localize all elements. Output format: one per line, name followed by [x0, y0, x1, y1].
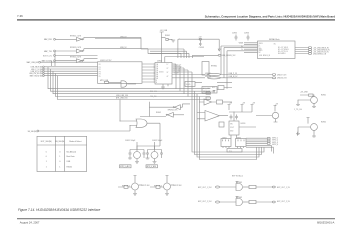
svg-text:B4 SHIELD: B4 SHIELD [278, 53, 287, 55]
svg-text:USB_M_5V: USB_M_5V [174, 67, 182, 69]
svg-text:+5V: +5V [199, 36, 203, 38]
svg-text:1_TO_OG: 1_TO_OG [294, 109, 303, 111]
svg-text:VBUS: VBUS [259, 43, 263, 45]
svg-text:B3 +5V_PLUS: B3 +5V_PLUS [278, 51, 288, 53]
svg-text:TXD_5V0: TXD_5V0 [150, 96, 157, 98]
svg-text:USB_5V: USB_5V [120, 47, 127, 49]
svg-text:3Y: 3Y [167, 72, 169, 74]
svg-text:SN74LVC1G: SN74LVC1G [203, 91, 212, 93]
svg-text:MAP_TXD: MAP_TXD [44, 50, 53, 53]
svg-text:1: 1 [59, 156, 60, 158]
svg-text:USB_P_5V#: USB_P_5V# [277, 74, 287, 76]
svg-text:2Y: 2Y [167, 68, 169, 70]
svg-text:USB_P: USB_P [205, 73, 211, 75]
svg-text:EXP_IN_2: EXP_IN_2 [154, 185, 162, 187]
svg-text:C0952 100pF: C0952 100pF [152, 140, 162, 142]
svg-text:P4: P4 [99, 74, 101, 76]
svg-text:U0941: U0941 [157, 61, 162, 63]
svg-text:R0941: R0941 [165, 35, 170, 37]
svg-text:EXP_OUT_1_5V#: EXP_OUT_1_5V# [198, 187, 212, 189]
svg-text:SHLD: SHLD [259, 50, 264, 52]
svg-text:RS232: RS232 [67, 166, 73, 168]
svg-text:1Y: 1Y [167, 64, 169, 66]
svg-text:USB_SHIELD_IN: USB_SHIELD_IN [313, 53, 327, 55]
svg-text:RXD: RXD [212, 87, 216, 89]
svg-text:EXP I/O Block: EXP I/O Block [232, 176, 243, 178]
svg-text:P3: P3 [99, 71, 101, 73]
svg-text:+5V_USB: +5V_USB [160, 30, 168, 32]
svg-text:R0961: R0961 [321, 95, 326, 97]
svg-text:BOT_SEL(M): BOT_SEL(M) [41, 141, 52, 143]
svg-text:J0962: J0962 [237, 137, 242, 139]
svg-text:U0951: U0951 [241, 123, 246, 125]
svg-text:RP0941 47K: RP0941 47K [168, 110, 178, 112]
svg-text:P2: P2 [99, 69, 101, 71]
svg-text:Schematics, Component Location: Schematics, Component Location Diagrams,… [205, 14, 336, 18]
svg-text:C0943: C0943 [199, 47, 204, 49]
svg-text:MAP_RS232 (M): MAP_RS232 (M) [30, 74, 43, 77]
svg-text:VIN: VIN [230, 124, 233, 126]
svg-text:RP0982: RP0982 [236, 197, 242, 199]
svg-text:RP0981: RP0981 [236, 182, 242, 184]
svg-text:C0936: C0936 [244, 33, 249, 35]
svg-text:b c: b c [230, 150, 232, 152]
svg-text:FLT_U0951: FLT_U0951 [203, 88, 211, 90]
svg-text:+5V: +5V [275, 104, 279, 106]
svg-text:D+: D+ [259, 47, 261, 49]
svg-text:BOOT_CTL: BOOT_CTL [43, 56, 52, 58]
svg-text:R0972 NU: R0972 NU [174, 185, 183, 187]
svg-text:VOUT: VOUT [230, 127, 234, 129]
svg-text:0: 0 [59, 161, 60, 163]
svg-text:R0971 NU: R0971 NU [142, 185, 151, 187]
svg-text:2B: 2B [156, 70, 158, 72]
svg-text:RP0921-3 47K: RP0921-3 47K [70, 57, 82, 59]
svg-text:0: 0 [46, 151, 47, 153]
svg-text:MTR_USB: MTR_USB [100, 80, 109, 82]
svg-text:USB_P_5V: USB_P_5V [229, 73, 238, 75]
svg-text:GND: GND [259, 48, 263, 50]
svg-text:S: S [156, 80, 157, 82]
svg-text:+5V: +5V [242, 103, 246, 105]
svg-text:USB_M_5V: USB_M_5V [229, 76, 239, 78]
svg-text:Mode of Select: Mode of Select [69, 140, 81, 143]
svg-text:Not Allowed: Not Allowed [67, 150, 77, 153]
svg-text:7-36: 7-36 [17, 14, 23, 18]
svg-text:1: 1 [59, 166, 60, 168]
svg-text:6816532H01-A: 6816532H01-A [317, 220, 335, 224]
svg-text:RP0921-2 47K: RP0921-2 47K [70, 47, 82, 49]
svg-text:SERIAL Block: SERIAL Block [269, 38, 280, 41]
svg-text:4Y: 4Y [167, 76, 169, 78]
svg-text:EXP_OUT_2_5V#: EXP_OUT_2_5V# [198, 201, 212, 203]
svg-text:C0951 100pF: C0951 100pF [125, 140, 135, 142]
svg-text:MAP_USB_EN: MAP_USB_EN [27, 61, 39, 64]
svg-text:Figure 7-14. HUD4025B/HUE4043A: Figure 7-14. HUD4025B/HUE4043A USB/RS232… [18, 208, 100, 212]
svg-text:C0935: C0935 [232, 33, 237, 35]
svg-text:VBUS: VBUS [239, 43, 244, 45]
svg-text:0: 0 [46, 156, 47, 158]
svg-text:MAP_RXD: MAP_RXD [44, 38, 53, 41]
svg-text:August 24, 2007: August 24, 2007 [20, 221, 40, 225]
svg-text:ATE_USB_5V0: ATE_USB_5V0 [116, 97, 128, 100]
svg-text:U0931 LVC157: U0931 LVC157 [100, 60, 111, 62]
svg-text:EXP_OUT_2_5V: EXP_OUT_2_5V [277, 201, 291, 203]
svg-text:U0941: U0941 [159, 72, 164, 74]
svg-text:NC: NC [259, 52, 262, 54]
svg-text:RXD_5V0: RXD_5V0 [150, 91, 157, 93]
svg-text:USB_5V: USB_5V [120, 37, 127, 39]
svg-text:Boot Data: Boot Data [67, 155, 75, 158]
svg-text:RXD_5V0: RXD_5V0 [174, 69, 181, 71]
svg-text:0: 0 [59, 151, 60, 153]
svg-text:E: E [156, 82, 157, 84]
svg-text:USB_P_5V: USB_P_5V [174, 65, 182, 67]
svg-text:D-: D- [259, 45, 261, 47]
svg-text:SB_SEL(M): SB_SEL(M) [28, 131, 37, 133]
svg-text:USB_M_5V#: USB_M_5V# [277, 78, 287, 80]
svg-text:MTR_V_ADJ: MTR_V_ADJ [120, 165, 130, 168]
svg-text:B1 +5V_VBUS: B1 +5V_VBUS [278, 47, 288, 49]
svg-text:J0961: J0961 [222, 137, 227, 139]
svg-text:P5: P5 [99, 76, 101, 78]
svg-text:NC: NC [274, 43, 277, 45]
svg-text:TXD_5V0: TXD_5V0 [174, 71, 181, 73]
svg-text:B2 +5V_MINUS: B2 +5V_MINUS [278, 49, 289, 51]
svg-text:MAP_B_RXD: MAP_B_RXD [42, 60, 53, 63]
svg-text:GPIO_4: GPIO_4 [272, 144, 278, 146]
svg-text:USB_MINUS_5V#: USB_MINUS_5V# [222, 55, 236, 57]
svg-text:USB_M: USB_M [205, 76, 211, 78]
svg-text:P1: P1 [99, 67, 101, 69]
svg-text:GND: GND [230, 131, 234, 133]
svg-text:D+: D+ [241, 46, 243, 48]
svg-text:+5V: +5V [229, 103, 233, 105]
svg-text:SB_SEL(M): SB_SEL(M) [55, 141, 65, 143]
svg-text:EXP_OUT_1_5V: EXP_OUT_1_5V [277, 187, 291, 189]
svg-text:+5V_USB: +5V_USB [300, 92, 308, 94]
svg-text:3B: 3B [156, 74, 158, 76]
svg-text:1: 1 [46, 166, 47, 168]
svg-text:MTR_V_ADJ: MTR_V_ADJ [147, 165, 157, 168]
svg-text:1: 1 [46, 161, 47, 163]
svg-text:USB_MINUS_IN: USB_MINUS_IN [259, 55, 270, 57]
svg-text:R0942: R0942 [156, 112, 161, 114]
svg-text:EXP_IN_1: EXP_IN_1 [122, 185, 130, 187]
svg-text:U0945: U0945 [186, 84, 191, 86]
svg-text:USB_LINK_5V0: USB_LINK_5V0 [116, 95, 128, 97]
svg-text:RP0941: RP0941 [211, 66, 217, 68]
svg-text:R0962: R0962 [321, 122, 326, 124]
svg-text:1A: 1A [156, 63, 158, 66]
svg-text:1B: 1B [156, 66, 158, 68]
svg-text:+5V: +5V [252, 103, 256, 105]
svg-text:VB_DET: VB_DET [174, 73, 180, 75]
svg-text:P0: P0 [99, 64, 101, 66]
svg-text:4B: 4B [156, 78, 158, 80]
svg-text:USB: USB [67, 161, 71, 163]
svg-text:RP0921-1 47K: RP0921-1 47K [70, 35, 82, 37]
